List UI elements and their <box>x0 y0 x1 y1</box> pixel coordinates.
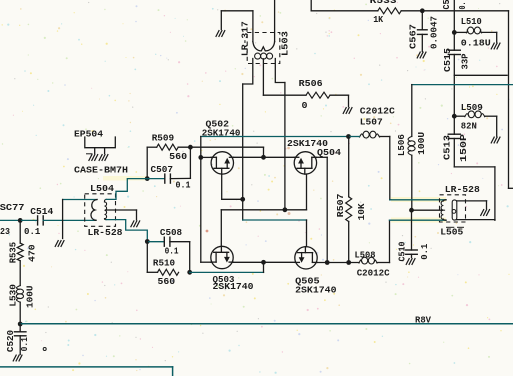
mark shield dash <box>87 153 93 155</box>
svg-text:2SK1740: 2SK1740 <box>213 281 254 292</box>
wire secondary bottom stair <box>106 220 147 242</box>
wire R8V rail <box>20 323 513 325</box>
transformer LR-317 primary winding <box>253 42 275 51</box>
svg-text:C2012C: C2012C <box>357 268 390 279</box>
ground C520 <box>13 355 16 361</box>
node C507 tee <box>145 176 150 181</box>
capacitor C513 <box>448 133 460 135</box>
wire Q504 right lead <box>317 156 328 158</box>
node xfmr-R center node <box>409 208 414 213</box>
inductor L509 <box>465 114 469 117</box>
wire Q503 gate lead <box>201 261 211 263</box>
wire C507 lead right <box>170 177 190 179</box>
wire C510 to ground <box>411 254 413 257</box>
wire bus LR317-left to Q502 source node <box>242 84 244 199</box>
wire xfmr-R top row <box>390 199 446 201</box>
ground C567 <box>417 52 420 58</box>
inductor L530 <box>16 286 20 290</box>
svg-text:33P: 33P <box>460 53 471 69</box>
svg-text:R507: R507 <box>335 193 346 217</box>
wire L507 corner down <box>389 137 391 200</box>
resistor R535 <box>17 243 23 261</box>
wire C508 lead left <box>147 241 164 243</box>
wire C567 to ground <box>421 34 423 51</box>
node rail tap <box>18 322 23 327</box>
wire LR-317 primary right lead <box>274 0 276 42</box>
wire vertical C515 branch upper <box>453 0 455 50</box>
wire xfmr-R center tap row <box>412 209 443 211</box>
wire R535 to L530 <box>19 261 21 286</box>
transformer LR-528L secondary winding <box>104 199 106 202</box>
wire xfmr-R center tap tick <box>442 209 445 211</box>
svg-text:100U: 100U <box>25 285 36 308</box>
node Q502 source <box>240 197 245 202</box>
svg-text:150P: 150P <box>458 134 469 162</box>
svg-text:R533: R533 <box>370 0 397 6</box>
svg-text:10K: 10K <box>356 203 367 220</box>
ground LR-528R secondary <box>481 210 484 216</box>
svg-text:560: 560 <box>158 276 176 287</box>
wire right edge vertical <box>508 11 510 189</box>
wire LR-317 sec left end down <box>243 59 253 85</box>
svg-text:0.18U: 0.18U <box>461 38 491 49</box>
svg-text:0.0047: 0.0047 <box>429 16 440 49</box>
wire xfmr-R top lead <box>390 199 391 201</box>
wire LR-317 sec right end down <box>275 59 285 83</box>
wire output vertical <box>494 167 496 220</box>
wire L506 branch upper <box>411 85 413 137</box>
svg-text:2SK1740: 2SK1740 <box>295 284 337 295</box>
resistor R507 <box>346 197 352 222</box>
node L509 tap <box>452 114 457 119</box>
ground L510 <box>491 43 494 49</box>
dashed box LR-528L <box>85 194 116 227</box>
wire link row A <box>454 74 507 76</box>
ground L509 <box>491 137 494 143</box>
wire right edge stub <box>509 187 513 189</box>
node source row tee <box>261 260 266 265</box>
capacitor C520 <box>14 331 26 333</box>
wire source feed <box>190 271 264 273</box>
capacitor C507 <box>164 174 166 183</box>
capacitor C567 <box>418 29 428 31</box>
svg-text:2SC77: 2SC77 <box>0 202 25 213</box>
resistor R506 <box>306 92 330 98</box>
svg-text:2SK1740: 2SK1740 <box>202 127 241 138</box>
svg-text:R8V: R8V <box>415 315 432 325</box>
svg-text:C507: C507 <box>151 164 174 175</box>
resistor R510 <box>158 269 179 275</box>
inductor L508 <box>359 260 362 263</box>
svg-text:0.1: 0.1 <box>24 226 41 237</box>
wire input to C514 <box>20 219 37 221</box>
wire R509 node to C507 vertical <box>189 147 191 178</box>
wire LR-317 primary left lead <box>252 11 254 42</box>
svg-text:L504: L504 <box>90 183 114 194</box>
wire Q502 source bus down <box>242 199 244 220</box>
node L510 tap <box>452 30 457 35</box>
svg-text:0.1: 0.1 <box>165 246 179 257</box>
node R509 output <box>188 145 193 150</box>
transistor Q505 <box>295 247 317 269</box>
wire secondary top stair <box>106 179 147 200</box>
svg-text:C513: C513 <box>442 135 453 160</box>
wire input node down <box>19 220 21 243</box>
wire bottom bus <box>0 366 173 368</box>
wire top feed vertical <box>310 0 312 11</box>
svg-text:C520: C520 <box>5 330 16 352</box>
wire to Q505 drain <box>306 220 308 247</box>
svg-text:0: 0 <box>302 100 308 111</box>
capacitor C508 <box>163 237 165 246</box>
wire primary top row <box>63 199 97 201</box>
svg-text:1K: 1K <box>373 14 383 25</box>
svg-text:R506: R506 <box>299 78 323 89</box>
wire LO to L507 <box>349 136 360 138</box>
inductor L506 <box>408 136 412 141</box>
wire C513 down <box>453 139 455 167</box>
dashed box LR-528R <box>440 195 466 222</box>
wire Q504 left lead <box>264 156 295 158</box>
wire LR-317 ground arm <box>221 10 253 12</box>
ground center tap <box>131 221 134 227</box>
capacitor C510 <box>406 249 418 251</box>
transformer LR-528R secondary loop <box>452 200 457 220</box>
wire R509 right row <box>178 146 263 148</box>
capacitor C510 lead <box>411 210 413 250</box>
resistor R533 <box>378 8 401 14</box>
capacitor C514 <box>37 216 39 225</box>
svg-text:L506: L506 <box>396 134 407 156</box>
wire C507 lead left <box>147 178 165 180</box>
wire L506 to center-tap node <box>411 155 413 210</box>
transformer LR-317 secondary winding <box>255 53 261 59</box>
capacitor C515 <box>448 49 460 51</box>
wire R533 to C567 node <box>401 10 422 12</box>
wire L510 lead left <box>454 31 466 33</box>
svg-text:L510: L510 <box>461 16 482 27</box>
wire xfmr-R bottom row <box>390 219 447 221</box>
transistor Q503 <box>211 246 233 268</box>
svg-text:470: 470 <box>26 244 37 262</box>
svg-text:R509: R509 <box>152 132 175 143</box>
wire bus LR317-right down <box>284 83 286 210</box>
resistor R509 <box>157 144 179 150</box>
node R507/L507 tap <box>346 134 351 139</box>
wire shield stubs <box>94 148 96 154</box>
svg-text:C567: C567 <box>408 24 419 49</box>
wire link row B <box>412 84 513 86</box>
node Q502 gate <box>198 155 203 160</box>
svg-text:L505: L505 <box>440 227 463 238</box>
wire LR-317 sec center tap down <box>262 59 264 95</box>
node xfmr bottom tee <box>145 239 150 244</box>
wire R509 left lead <box>147 146 157 148</box>
wire top bus left segment <box>311 10 378 12</box>
svg-text:0.1: 0.1 <box>419 243 430 259</box>
svg-text:LR-317: LR-317 <box>240 21 251 56</box>
mark L505 overline <box>447 226 454 228</box>
wire Q503-Q505 source row <box>233 261 295 263</box>
svg-text:0.1: 0.1 <box>176 180 191 191</box>
ground R506 <box>343 108 346 114</box>
wire R507 top lead <box>348 137 350 197</box>
wire top bus right segment <box>422 10 508 12</box>
wire center tap to R506 <box>263 94 306 96</box>
wire R509 jog down <box>263 147 265 157</box>
ground C510 <box>406 259 409 265</box>
wire output join <box>494 219 496 222</box>
inductor L507 <box>360 134 364 137</box>
ground shield left <box>89 155 92 161</box>
wire secondary top to ground <box>457 200 487 202</box>
wire ring row to Q503 <box>221 209 285 211</box>
capacitor C513 lead <box>453 116 455 134</box>
wire L530 to rail <box>19 302 21 324</box>
svg-text:R510: R510 <box>153 258 175 269</box>
wire gate bus down <box>200 137 202 263</box>
wire Q502 source drop <box>221 174 223 199</box>
ground input side <box>55 241 58 247</box>
svg-text:R535: R535 <box>7 242 18 264</box>
node Q504 bus join <box>325 260 330 265</box>
svg-text:L530: L530 <box>8 284 19 307</box>
svg-text:L508: L508 <box>355 250 376 261</box>
capacitor C520 lead <box>19 324 21 332</box>
svg-text:0.: 0. <box>457 2 468 10</box>
mark small circle <box>43 348 46 351</box>
svg-text:560: 560 <box>169 151 187 162</box>
wire primary top ground drop <box>62 200 64 239</box>
svg-text:L509: L509 <box>461 102 483 113</box>
svg-text:82N: 82N <box>461 121 477 132</box>
node R510 right <box>187 270 192 275</box>
node ring node right <box>283 207 288 212</box>
svg-text:EP504: EP504 <box>74 128 103 139</box>
transistor Q502 <box>211 152 233 174</box>
svg-text:L507: L507 <box>360 116 383 127</box>
svg-text:C515: C515 <box>442 48 453 72</box>
transformer LR-528L primary winding <box>91 200 97 221</box>
wire Q502 gate lead <box>201 156 211 158</box>
wire L508 corner up <box>389 220 391 262</box>
wire R506 to ground <box>330 94 349 96</box>
wire L508 to corner <box>377 262 390 264</box>
wire R507 bottom lead <box>348 222 350 263</box>
wire C515 to L509 node <box>453 55 455 117</box>
svg-text:CASE-BM7H: CASE-BM7H <box>74 165 128 176</box>
svg-text:L503: L503 <box>279 31 290 56</box>
wire L507 to corner <box>380 136 390 138</box>
ground shield right <box>99 155 102 161</box>
svg-text:C2012C: C2012C <box>360 106 395 117</box>
transformer LR-528R primary winding <box>443 200 446 201</box>
svg-text:0.1: 0.1 <box>19 337 30 352</box>
svg-text:LR-528: LR-528 <box>445 184 480 195</box>
svg-text:C508: C508 <box>160 227 182 238</box>
wire C508 lead right <box>170 241 190 243</box>
inductor L510 <box>467 30 469 33</box>
wire input line <box>0 219 20 221</box>
transistor Q504 <box>294 152 316 174</box>
wire center tap <box>106 209 136 211</box>
dashed box LR-317 <box>247 33 280 64</box>
wire L510 lead right <box>482 31 497 33</box>
node input tee <box>18 218 23 223</box>
wire Q502 source bus across <box>243 219 307 221</box>
node Q504 gate feed <box>261 155 266 160</box>
wire secondary bottom out <box>457 219 495 221</box>
svg-text:C5: C5 <box>441 0 452 10</box>
node C567 tap <box>420 8 425 13</box>
svg-text:Q504: Q504 <box>317 147 341 158</box>
wire R510 left lead <box>146 242 148 273</box>
wire Q505 right lead <box>317 262 359 264</box>
node R507 bottom join <box>346 260 351 265</box>
wire L509 lead right <box>485 115 497 117</box>
wire LO line <box>201 136 349 138</box>
wire Q502 right lead <box>234 156 264 158</box>
capacitor C567 lead <box>421 11 423 30</box>
shield bracket EP504 <box>85 137 116 148</box>
wire L509 lead left <box>454 115 465 117</box>
svg-text:LR-528: LR-528 <box>88 227 123 238</box>
wire C513 bottom row <box>454 166 495 168</box>
wire C514 to primary <box>43 219 96 221</box>
ground LR-317 primary <box>216 31 219 37</box>
svg-text:100U: 100U <box>416 132 427 155</box>
svg-text:C510: C510 <box>397 241 408 261</box>
wire C520 to ground <box>19 336 21 355</box>
svg-text:23: 23 <box>0 226 10 237</box>
wire Q503 drain up <box>220 210 222 246</box>
wire Q504 source jog <box>306 174 308 210</box>
svg-text:C514: C514 <box>30 206 53 217</box>
